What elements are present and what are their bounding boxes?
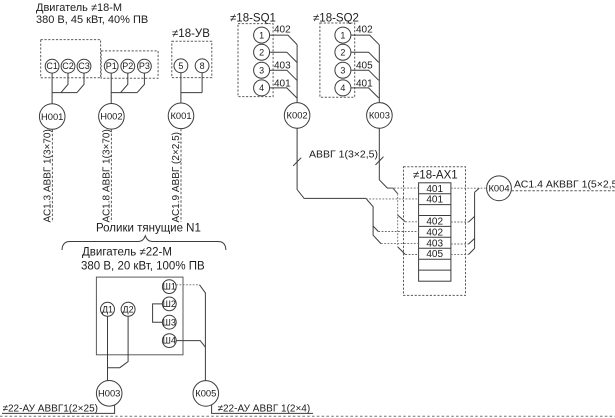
SQ1 title — [230, 13, 276, 25]
wire C1 to H001 — [51, 73, 53, 104]
cable label ABBG — [309, 149, 378, 161]
SQ2 net label 402 — [356, 25, 373, 36]
SQ2 pin 2 — [335, 44, 351, 60]
cable tail H001 — [51, 130, 53, 223]
wire SQ2 pin1 — [351, 35, 379, 45]
motor M18 rotor terminal box P — [101, 51, 158, 78]
cable shelf H003 — [2, 405, 115, 414]
wire SQ2 pin4 — [351, 88, 379, 98]
AX1 title — [413, 170, 458, 182]
cable tail H002 — [110, 129, 112, 222]
cable marker K004 — [487, 176, 512, 201]
svg-text:4: 4 — [340, 83, 345, 93]
svg-text:Двигатель ≠22-М: Двигатель ≠22-М — [82, 247, 172, 259]
terminal P1 — [104, 59, 118, 73]
svg-text:401: 401 — [426, 195, 443, 206]
wire SQ1 pin4 — [270, 88, 297, 98]
svg-text:402: 402 — [426, 216, 443, 227]
AX1 outer box — [404, 167, 466, 296]
AX1 terminal table — [419, 183, 451, 281]
svg-text:К004: К004 — [488, 183, 509, 194]
svg-text:К001: К001 — [170, 110, 191, 121]
wire D1 to H003 — [107, 316, 109, 380]
svg-text:Ш3: Ш3 — [163, 317, 176, 327]
svg-text:4: 4 — [259, 83, 264, 93]
wire C collector — [52, 92, 77, 94]
cable slash K003 — [376, 157, 384, 165]
terminal 5 — [174, 59, 188, 73]
svg-text:403: 403 — [426, 238, 443, 249]
svg-text:Р1: Р1 — [106, 61, 117, 71]
svg-text:380 В, 45 кВт, 40% ПВ: 380 В, 45 кВт, 40% ПВ — [36, 14, 148, 26]
cable label AC1.9 — [171, 132, 182, 223]
cable label AC1.8 — [101, 129, 112, 222]
svg-text:≠22-АУ АВВГ1(2×25): ≠22-АУ АВВГ1(2×25) — [3, 404, 98, 415]
terminal C3 — [77, 59, 91, 73]
svg-text:5: 5 — [178, 61, 183, 71]
svg-text:Р2: Р2 — [122, 61, 133, 71]
terminal Sh2 — [162, 297, 176, 311]
wire C2 merge — [61, 73, 68, 93]
svg-text:402: 402 — [274, 25, 291, 36]
cable marker H001 — [39, 104, 65, 130]
wire 5-8 collector — [181, 92, 202, 94]
svg-text:АС1.4 АКВВГ 1(5×2,5): АС1.4 АКВВГ 1(5×2,5) — [514, 179, 615, 191]
motor M18 stator terminal box C — [41, 40, 101, 78]
SQ2 pin 4 — [335, 80, 351, 96]
wire SQ2 pin2 — [351, 52, 379, 62]
svg-text:402: 402 — [356, 25, 373, 36]
wire 5 to K001 — [180, 73, 182, 103]
svg-text:АС1.8 АВВГ 1(3×70): АС1.8 АВВГ 1(3×70) — [101, 129, 112, 222]
SQ1 pin 1 — [254, 27, 270, 43]
SQ1 box — [238, 24, 273, 97]
SQ1 net label 403 — [274, 61, 291, 72]
wire SQ1 pin2 — [270, 52, 297, 62]
terminal C2 — [61, 59, 75, 73]
motor M22 terminal box — [96, 277, 183, 355]
svg-text:АС1.3 АВВГ 1(3×70): АС1.3 АВВГ 1(3×70) — [42, 129, 53, 222]
wire K002 branch row5 — [373, 226, 378, 232]
svg-text:1: 1 — [340, 30, 345, 40]
terminal P3 — [138, 59, 152, 73]
wire D2 merge — [108, 316, 129, 367]
SQ1 pin 2 — [254, 44, 270, 60]
svg-text:≠18-АХ1: ≠18-АХ1 — [413, 170, 458, 182]
svg-text:С3: С3 — [78, 61, 90, 71]
SQ2 net label 401 — [356, 79, 373, 90]
SQ1 net label 402 — [274, 25, 291, 36]
terminal D1 — [101, 302, 115, 316]
AX1 terminal 401 a — [426, 184, 443, 195]
svg-text:К002: К002 — [287, 110, 308, 121]
svg-text:≠22-АУ АВВГ 1(2×4): ≠22-АУ АВВГ 1(2×4) — [218, 404, 311, 415]
wire K002 down — [297, 128, 381, 243]
svg-text:Двигатель ≠18-М: Двигатель ≠18-М — [36, 2, 122, 14]
svg-text:402: 402 — [426, 227, 443, 238]
group label Roliki — [96, 223, 201, 235]
wire entry row1 — [387, 187, 418, 189]
svg-text:С1: С1 — [46, 61, 58, 71]
wire P3 merge — [137, 73, 144, 93]
wire P collector — [111, 92, 137, 94]
wire entry row6 — [381, 243, 419, 245]
cable shelf K005 — [212, 405, 313, 414]
cable slash K002 — [293, 158, 301, 166]
bottom boundary dashed line — [0, 415, 615, 417]
wire SQ2 collector to K003 — [378, 45, 380, 103]
svg-text:380 В, 20 кВт, 100% ПВ: 380 В, 20 кВт, 100% ПВ — [81, 261, 205, 273]
svg-text:≠18-SQ1: ≠18-SQ1 — [230, 13, 276, 25]
svg-text:С2: С2 — [62, 61, 74, 71]
svg-text:3: 3 — [259, 65, 264, 75]
wire K003 down — [379, 128, 405, 254]
svg-text:≠18-УВ: ≠18-УВ — [172, 28, 210, 40]
AX1 terminal 403 — [426, 238, 443, 249]
terminal D2 — [121, 302, 135, 316]
wire 8 merge — [201, 73, 203, 93]
terminal C1 — [45, 59, 59, 73]
wire C3 merge — [77, 73, 84, 93]
svg-text:Ролики тянущие N1: Ролики тянущие N1 — [96, 223, 201, 235]
SQ1 pin 3 — [254, 62, 270, 78]
wire AX1 row6 exit — [451, 238, 475, 244]
SQ1 net label 401 — [274, 79, 291, 90]
svg-text:Н003: Н003 — [98, 388, 120, 399]
UV terminal box — [172, 41, 212, 77]
SQ1 pin 4 — [254, 80, 270, 96]
svg-text:405: 405 — [426, 249, 443, 260]
cable marker K001 — [168, 103, 194, 129]
SQ2 title — [313, 13, 359, 25]
motor M18 title text — [36, 2, 148, 26]
AX1 terminal 402 a — [426, 216, 443, 227]
cable tail K001 — [180, 129, 182, 222]
cable marker K003 — [367, 103, 393, 129]
svg-text:К003: К003 — [369, 110, 390, 121]
SQ2 pin 3 — [335, 62, 351, 78]
wire entry row7 — [405, 254, 418, 256]
wire Sh4 merge — [176, 341, 205, 348]
cable marker K002 — [284, 103, 310, 129]
wire K003 branch row4 — [398, 215, 406, 222]
svg-text:3: 3 — [340, 65, 345, 75]
motor M22 title text — [81, 247, 205, 273]
cable label 22-AU left — [3, 404, 98, 415]
svg-text:Р3: Р3 — [139, 61, 150, 71]
svg-text:2: 2 — [259, 47, 264, 57]
wire AX1 right collector — [475, 188, 480, 248]
terminal 8 — [195, 59, 209, 73]
wire SQ1 collector to K002 — [296, 45, 298, 103]
cable label AC1.4 — [514, 179, 615, 191]
svg-text:Д2: Д2 — [123, 304, 134, 314]
cable label 22-AU right — [218, 404, 311, 415]
svg-text:2: 2 — [340, 47, 345, 57]
SQ2 net label 405 — [356, 61, 373, 72]
cable marker K005 — [193, 381, 219, 407]
SQ2 pin 1 — [335, 27, 351, 43]
wire entry row2 — [366, 198, 419, 200]
svg-text:Д1: Д1 — [102, 304, 113, 314]
wire entry row5 — [378, 231, 418, 233]
svg-text:401: 401 — [426, 184, 443, 195]
svg-text:АС1.9 АВВГ (2×2,5): АС1.9 АВВГ (2×2,5) — [171, 132, 182, 223]
terminal Sh1 — [162, 280, 176, 294]
wire SQ1 pin3 — [270, 70, 297, 80]
wire SQ2 pin3 — [351, 70, 379, 80]
svg-text:Н001: Н001 — [41, 111, 63, 122]
svg-text:1: 1 — [259, 30, 264, 40]
cable marker H002 — [99, 104, 125, 130]
AX1 terminal 402 b — [426, 227, 443, 238]
svg-text:Ш2: Ш2 — [163, 299, 176, 309]
SQ2 box — [320, 23, 355, 97]
terminal Sh3 — [162, 315, 176, 329]
svg-text:К005: К005 — [195, 388, 216, 399]
wire P1 to H002 — [110, 73, 112, 103]
svg-text:Ш1: Ш1 — [163, 282, 176, 292]
AX1 terminal 405 — [426, 249, 443, 260]
UV title — [172, 28, 210, 40]
group brace — [62, 236, 226, 250]
wire Sh1 to K005 — [176, 285, 205, 381]
svg-text:8: 8 — [200, 61, 205, 71]
wire SQ1 pin1 — [270, 35, 297, 45]
cable label AC1.3 — [42, 129, 53, 222]
terminal Sh4 — [162, 334, 176, 348]
wire AX1 row4 exit — [451, 216, 475, 222]
terminal P2 — [121, 59, 135, 73]
cable marker H003 — [96, 381, 122, 407]
svg-text:Н002: Н002 — [100, 111, 122, 122]
svg-text:АВВГ 1(3×2,5): АВВГ 1(3×2,5) — [309, 149, 378, 161]
wire P2 merge — [121, 73, 128, 93]
wire AX1 row1 to K004 — [451, 187, 487, 189]
wire entry row4 — [405, 221, 418, 223]
svg-text:Ш4: Ш4 — [163, 336, 176, 346]
jumper Sh2-Sh3 — [153, 304, 163, 322]
AX1 terminal 401 b — [426, 195, 443, 206]
wire AX1 row7 exit — [451, 248, 475, 254]
cable shelf K004 — [511, 190, 615, 192]
